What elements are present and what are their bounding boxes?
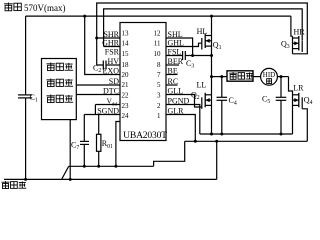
label PGND (168, 97, 190, 106)
junction dot C7 on L1 (83, 165, 86, 168)
wire lamp to right bridge (277, 76, 288, 78)
wire ground riser (216, 141, 218, 179)
wire return staircase (154, 141, 185, 166)
wire 570V rail top (26, 15, 291, 17)
label UBA2030T (123, 130, 167, 141)
transistor Q1 HL high-side left (202, 34, 212, 50)
svg-text:3: 3 (157, 92, 161, 100)
label GLL (168, 87, 184, 96)
svg-text:24: 24 (122, 112, 130, 120)
wire rail to Q3 drain (291, 16, 293, 36)
label HL (197, 27, 208, 36)
junction dot lamp right node (280, 75, 283, 78)
wire 570V rail left drop to C1 (25, 16, 27, 95)
svg-text:570V(max): 570V(max) (24, 3, 66, 13)
junction dot SHL at bridge node (210, 54, 213, 57)
wire PGND pin 2 to bottom bus (166, 105, 200, 135)
label oscillator box text line1 (47, 63, 74, 71)
wire SHL pin 12 (166, 38, 193, 56)
junction dot rail to Q1 drain (210, 15, 213, 18)
label RC (168, 77, 179, 86)
wire pin 19 row to bottom bus (116, 122, 120, 167)
label HV (107, 57, 119, 66)
capacitor C4 on left output (217, 75, 237, 134)
label Q1 (213, 41, 222, 52)
wire bottom bus H1 (200, 133, 293, 135)
wire Q3 main vertical (292, 36, 294, 54)
wire GLR pin 1 (166, 115, 195, 142)
svg-text:5: 5 (157, 81, 161, 89)
junction dot SHR wire (95, 37, 98, 40)
label FSR (105, 48, 120, 57)
svg-text:20: 20 (122, 71, 130, 79)
svg-text:LR: LR (293, 83, 304, 92)
wire GLR riser to Q4 gate (302, 109, 307, 142)
junction dot pin19 wire on L1 (114, 165, 117, 168)
junction dot Q2 source on H1 (210, 133, 213, 136)
wire GHL pin 11 to Q1 gate (166, 43, 202, 46)
wire Vdd pin 23 (95, 105, 120, 115)
wire rail branch down to EXO row (85, 16, 120, 74)
transistor Q4 LR low-side right (293, 93, 303, 109)
label SHL (168, 30, 183, 39)
svg-text:SD: SD (109, 77, 119, 86)
junction dot SHL-C3 (191, 54, 194, 57)
svg-text:HR: HR (294, 28, 306, 37)
igniter box (227, 71, 253, 81)
wire igniter input (212, 76, 228, 78)
wire DTC from oscillator box (76, 94, 120, 96)
resistor R01 timing (97, 115, 114, 167)
junction dot C1 on ground rail (24, 178, 27, 181)
wire SHR pin 13 (97, 37, 120, 39)
wire left bridge vertical (211, 16, 213, 134)
label EXO (103, 67, 120, 76)
svg-text:HID: HID (263, 71, 275, 79)
svg-text:23: 23 (122, 102, 130, 110)
svg-text:12: 12 (154, 29, 162, 37)
label SGND (97, 107, 119, 116)
capacitor C2 bootstrap to HV pin (93, 38, 120, 74)
svg-text:11: 11 (154, 40, 161, 48)
wire SHR net top line (97, 3, 308, 54)
label high-voltage 570V(max) supply (4, 3, 66, 14)
svg-text:EXO: EXO (103, 67, 120, 76)
op-amp IC U1 UBA2030T body (120, 23, 166, 141)
svg-text:18: 18 (122, 61, 130, 69)
label igniter text (229, 72, 253, 79)
label oscillator box text line3 (47, 95, 74, 103)
wire GHR net top line (104, 9, 303, 47)
svg-text:13: 13 (122, 29, 130, 37)
label HID (263, 71, 275, 79)
pin numbers right column 12-1 (154, 29, 162, 120)
capacitor C3 bootstrap left (166, 51, 212, 70)
label lamp char (267, 79, 272, 84)
wire GHR pin 14 (104, 46, 120, 48)
svg-text:UBA2030T: UBA2030T (123, 130, 167, 141)
label BER (168, 57, 184, 66)
label SD (109, 77, 119, 86)
label LL (197, 81, 207, 90)
wire system ground rail (4, 178, 217, 180)
label FSL (168, 48, 182, 57)
svg-text:14: 14 (122, 40, 130, 48)
label SHR (103, 30, 119, 39)
svg-text:BER: BER (168, 57, 184, 66)
svg-text:GLL: GLL (168, 87, 184, 96)
svg-text:10: 10 (154, 50, 162, 58)
svg-text:2: 2 (157, 102, 161, 110)
capacitor C1 on HV bus (18, 93, 38, 180)
label LR (293, 83, 304, 92)
label GHR (102, 39, 120, 48)
junction dot C5 on H1 (280, 133, 283, 136)
svg-text:LL: LL (197, 81, 207, 90)
pin numbers left column 13-24 (122, 29, 130, 120)
svg-text:8: 8 (157, 61, 161, 69)
transistor Q3 HR high-side right (293, 36, 303, 52)
label BE (168, 67, 178, 76)
wire BER stub (166, 64, 179, 66)
svg-text:7: 7 (157, 71, 161, 79)
wire GLL pin 3 to Q2 gate (166, 95, 202, 108)
label oscillator box text line2 (47, 79, 74, 87)
wire igniter to lamp (253, 76, 261, 78)
svg-text:GHL: GHL (168, 39, 185, 48)
wire SD from oscillator box (76, 84, 120, 86)
junction dot box ground on rail (69, 178, 72, 181)
svg-text:HV: HV (107, 57, 119, 66)
label Q4 (304, 95, 313, 106)
svg-text:FSR: FSR (105, 48, 120, 57)
label Q3 (281, 40, 290, 51)
wire BE stub (166, 74, 178, 76)
junction dot rail to EXO branch (83, 15, 86, 18)
transistor Q2 LL low-side left (202, 93, 212, 109)
svg-text:SGND: SGND (97, 107, 119, 116)
svg-text:FSL: FSL (168, 48, 182, 57)
capacitor C7 SGND decoupling (71, 115, 89, 167)
wire right bridge output node (289, 77, 293, 134)
label system ground (2, 181, 27, 189)
svg-text:21: 21 (122, 81, 130, 89)
junction dot GLR on H2 (194, 140, 197, 143)
junction dot bridge left output (210, 75, 213, 78)
oscillator control box (external oscillator control circuit) (42, 59, 77, 120)
svg-text:HL: HL (197, 27, 208, 36)
label GHL (168, 39, 185, 48)
junction dot C4 on H1 (220, 133, 223, 136)
label HR (294, 28, 306, 37)
capacitor C5 on lamp output (262, 77, 286, 134)
label DTC (103, 87, 119, 96)
svg-text:22: 22 (122, 92, 130, 100)
wire bottom bus H2 GLR run (185, 140, 308, 142)
svg-text:15: 15 (122, 50, 130, 58)
label GLR (168, 107, 185, 116)
wire diagonal jog to ground rail (62, 166, 69, 179)
svg-text:BE: BE (168, 67, 178, 76)
wire oscillator box ground (69, 120, 71, 180)
lamp HID circle (261, 68, 278, 85)
svg-text:DTC: DTC (103, 87, 119, 96)
svg-text:RC: RC (168, 77, 179, 86)
wire RC stub (166, 84, 178, 86)
wire SGND pin 24 (84, 114, 120, 116)
svg-text:1: 1 (157, 112, 161, 120)
svg-text:PGND: PGND (168, 97, 190, 106)
junction dot ground riser on H2 (215, 140, 218, 143)
wire return bus L1 (69, 165, 154, 167)
svg-text:GHR: GHR (102, 39, 120, 48)
label Q2 (191, 91, 200, 102)
junction dot R01 on L1 (97, 165, 100, 168)
label Vdd (107, 97, 118, 108)
svg-text:GLR: GLR (168, 107, 185, 116)
